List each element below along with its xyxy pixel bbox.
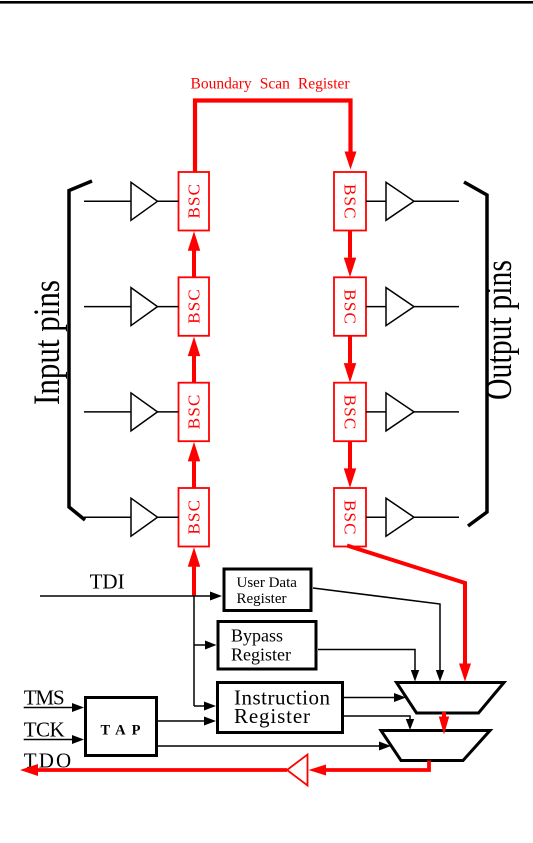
- red arrowhead BSR into mux1: [459, 664, 471, 682]
- svg-text:Boundary Scan Register: Boundary Scan Register: [191, 76, 351, 93]
- wire TAP out1 to Instruction Register: [158, 720, 205, 722]
- arrowhead into Bypass Register: [205, 641, 217, 650]
- svg-text:User Data: User Data: [237, 575, 298, 591]
- output buffer 2: [366, 288, 459, 326]
- red chain arrow R1-R2 (down): [344, 231, 357, 278]
- top horizontal rule: [0, 1, 533, 4]
- red chain arrow L2-L3 (up): [188, 337, 201, 383]
- svg-text:BSC: BSC: [340, 289, 359, 324]
- wire branch to Bypass Register: [194, 644, 206, 646]
- svg-text:BSC: BSC: [340, 500, 359, 535]
- wire TMS: [24, 707, 73, 709]
- mux2 trapezoid: [381, 731, 490, 761]
- red chain arrow L1-L2 (up): [188, 231, 201, 277]
- input buffer 3: [84, 393, 179, 431]
- wire red TDO: [38, 768, 287, 772]
- wire red top bracket: [195, 101, 351, 173]
- wire TDI: [40, 595, 211, 597]
- BSC cell R1: [334, 172, 366, 231]
- BSC cell R4: [334, 488, 366, 547]
- svg-text:BSC: BSC: [185, 500, 204, 535]
- arrowhead into Instruction Register: [204, 702, 216, 711]
- svg-text:TAP: TAP: [101, 723, 147, 739]
- svg-text:BSC: BSC: [340, 395, 359, 430]
- red chain arrow R2-R3 (down): [344, 336, 357, 383]
- red arrowhead TDO end: [20, 764, 38, 776]
- svg-text:Register: Register: [234, 704, 310, 728]
- arrowhead TCK into TAP: [72, 735, 84, 744]
- wire red BSR from R4 to mux1: [347, 546, 465, 665]
- svg-text:Output pins: Output pins: [479, 260, 520, 400]
- TDO buffer triangle: [287, 755, 308, 786]
- arrowhead into right BSC1: [345, 152, 357, 170]
- arrowhead Instruction into mux1: [394, 693, 406, 702]
- red arrow mux1 to mux2: [439, 712, 449, 735]
- arrowhead TAP into Instruction Register: [204, 717, 216, 726]
- red arrowhead into TDO buffer: [309, 765, 327, 776]
- right bracket: [464, 182, 487, 526]
- BSC cell R3: [334, 383, 366, 442]
- output buffer 3: [366, 393, 459, 431]
- BSC cell L3: [179, 383, 210, 442]
- BSC cell L4: [179, 488, 210, 547]
- input buffer 1: [84, 182, 179, 220]
- svg-text:Register: Register: [237, 591, 287, 607]
- svg-text:TDI: TDI: [90, 570, 125, 594]
- BSC cell L2: [179, 277, 210, 336]
- svg-text:Input pins: Input pins: [27, 280, 68, 405]
- arrowhead TAP into mux2: [379, 742, 391, 751]
- red arrow TDI to L4 (up): [188, 547, 201, 596]
- svg-text:BSC: BSC: [340, 184, 359, 219]
- input buffer 4: [84, 498, 179, 536]
- arrowhead TMS into TAP: [72, 703, 84, 712]
- wire red mux2 output to TDO: [326, 761, 429, 771]
- svg-text:TMS: TMS: [24, 686, 65, 710]
- register Instruction: [218, 683, 343, 733]
- svg-text:BSC: BSC: [185, 184, 204, 219]
- left bracket: [69, 181, 92, 520]
- arrowhead Bypass into mux1: [411, 670, 419, 682]
- svg-text:TCK: TCK: [24, 718, 65, 742]
- output buffer 4: [366, 498, 459, 536]
- wire TCK: [24, 739, 73, 741]
- mux1 trapezoid: [397, 683, 505, 714]
- arrowhead User Data into mux1: [436, 670, 444, 682]
- arrowhead Instruction into mux2: [406, 719, 414, 730]
- red chain arrow L3-L4 (up): [188, 442, 201, 488]
- wire TAP out2 to mux2 left edge: [158, 745, 380, 747]
- wire User Data to mux1: [313, 588, 440, 671]
- svg-text:Register: Register: [231, 645, 291, 665]
- register User Data: [224, 569, 311, 611]
- red chain arrow R3-R4 (down): [344, 441, 357, 488]
- svg-text:Bypass: Bypass: [231, 626, 283, 646]
- svg-text:BSC: BSC: [185, 289, 204, 324]
- register Bypass: [218, 622, 316, 670]
- output buffer 1: [366, 182, 459, 220]
- TAP controller box: [86, 698, 157, 756]
- input buffer 2: [84, 288, 179, 326]
- wire TDI tap vertical: [193, 596, 195, 706]
- wire branch to Instruction Register: [194, 705, 205, 707]
- BSC cell L1: [179, 172, 210, 231]
- BSC cell R2: [334, 277, 366, 336]
- wire Bypass to mux1: [318, 650, 415, 672]
- wire Instruction out2 to mux2 top: [344, 716, 410, 720]
- svg-text:BSC: BSC: [185, 395, 204, 430]
- wire Instruction out1 to mux1 left edge: [344, 697, 395, 699]
- arrowhead TDI into User Data Register: [210, 592, 222, 601]
